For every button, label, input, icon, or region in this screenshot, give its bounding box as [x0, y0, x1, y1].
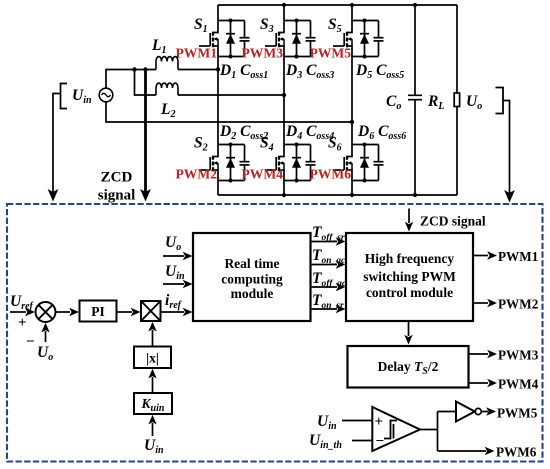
svg-text:PWM5: PWM5 [497, 406, 538, 421]
wire PWM5 out [481, 411, 488, 413]
cell S5: wire bottom [352, 56, 379, 58]
arrow Uref in [25, 308, 35, 316]
wire summer to PI [56, 311, 71, 313]
wire Uo feedback [503, 101, 510, 194]
arrow PWM2 [487, 299, 497, 307]
wire Toff_ac [311, 286, 338, 288]
wire leg2 lower [283, 181, 285, 196]
wire ZCD sense down [144, 70, 147, 194]
arrow PWM4 [487, 379, 497, 387]
multiplier [141, 301, 161, 321]
resistor RL [454, 93, 459, 107]
svg-text:PWM2: PWM2 [498, 297, 539, 312]
arrow Uo rt [183, 252, 193, 260]
diode D4 [292, 143, 301, 183]
wire bottom rail [218, 194, 457, 196]
wire leg3 upper [351, 5, 353, 21]
wire PWM2 out [473, 302, 488, 304]
block Kuin [134, 393, 172, 414]
svg-text:PWM3: PWM3 [498, 348, 539, 363]
wire Kuin to abs [152, 377, 154, 393]
wire Uref in [10, 311, 26, 313]
node A L2 tap [132, 67, 136, 71]
wire leg1 mid [217, 57, 219, 145]
diode D3 [292, 19, 301, 59]
svg-text:|x|: |x| [146, 351, 159, 366]
block High frequency switching PWM control module [346, 233, 473, 321]
node A ZCD tap [143, 67, 147, 71]
inverter U3 [456, 402, 475, 422]
wire L2 branch [135, 70, 157, 96]
wire Ton_ac [311, 264, 338, 266]
transistor S3 (MOSFET) [265, 21, 284, 57]
capacitor Coss5 [374, 21, 384, 57]
cell S1: wire bottom [218, 56, 245, 58]
wire Uo into summer [45, 331, 47, 342]
wire source top [106, 70, 156, 89]
wire Uin sense down [53, 94, 61, 194]
wire Uin_th comp [352, 440, 372, 442]
wire comparator out [420, 412, 456, 452]
wire leg1 upper [217, 5, 219, 21]
wire Uin rt [163, 283, 184, 285]
arrow iref [183, 308, 193, 316]
arrow ZCD inner [405, 222, 413, 232]
wire Ton_sr [311, 308, 338, 310]
wire L2 to leg2 [178, 94, 284, 96]
svg-text:High frequency: High frequency [365, 251, 455, 266]
wire abs to multiplier [152, 330, 154, 347]
cell S4: wire bottom [284, 180, 311, 182]
bracket Uin [61, 84, 68, 109]
summing junction [36, 302, 56, 322]
svg-text:ZCD signal: ZCD signal [420, 214, 486, 229]
AC source Uin [99, 88, 113, 102]
inductor L2 [156, 83, 178, 95]
diode D1 [226, 19, 235, 59]
node bottom rail leg3 [350, 193, 354, 197]
svg-text:signal: signal [98, 188, 136, 204]
svg-text:computing: computing [221, 272, 283, 287]
node ACbot leg3 [350, 120, 354, 124]
capacitor Coss2 [240, 145, 250, 181]
capacitor Coss3 [306, 21, 316, 57]
svg-text:−: − [376, 434, 385, 450]
wire leg2 mid [283, 57, 285, 145]
svg-text:module: module [231, 286, 274, 301]
arrow PWM3 [487, 350, 497, 358]
wire PWM4 out [469, 382, 489, 384]
wire PWM3 out [469, 353, 489, 355]
arrow Uo feedback [504, 190, 515, 203]
cell S2: wire top [218, 144, 245, 146]
cell S5: wire top [352, 20, 379, 22]
wire iref [161, 311, 185, 313]
cell S6: wire top [352, 144, 379, 146]
node bottom rail leg2 [282, 193, 286, 197]
svg-text:control module: control module [366, 285, 453, 300]
block Real time computing module [193, 233, 311, 321]
wire L1 to leg1 [178, 69, 218, 71]
node bottom rail Co [413, 193, 417, 197]
arrow abs to multiplier [148, 322, 156, 332]
wire leg3 lower [351, 181, 353, 196]
arrow Uin sense [48, 189, 59, 202]
wire Uo rt [163, 255, 184, 257]
block abs |x| [134, 347, 171, 369]
cell S6: wire bottom [352, 180, 379, 182]
svg-text:switching PWM: switching PWM [363, 269, 456, 284]
arrow into delay [404, 335, 412, 345]
svg-text:PWM6: PWM6 [496, 445, 537, 460]
svg-text:PWM4: PWM4 [498, 377, 539, 392]
wire PI to multiplier [117, 311, 133, 313]
svg-text:PWM4: PWM4 [241, 167, 283, 182]
transistor S1 (MOSFET) [199, 21, 218, 57]
wire top rail [218, 4, 457, 6]
arrow Uin to Kuin [148, 415, 156, 425]
wire right branch [456, 5, 458, 195]
bracket Uo [496, 88, 504, 114]
diode D6 [360, 143, 369, 183]
diode D5 [360, 19, 369, 59]
svg-text:PWM1: PWM1 [175, 46, 217, 61]
arrow Ton_sr [336, 305, 346, 313]
arrow Toff_sr [336, 237, 346, 245]
wire PWM1 out [473, 255, 488, 257]
arrow ZCD sense [140, 189, 151, 202]
svg-text:ZCD: ZCD [101, 170, 133, 186]
node top rail leg3 [350, 3, 354, 7]
node L2 leg2 [282, 93, 286, 97]
wire Toff_sr [311, 241, 338, 243]
transistor S4 (MOSFET) [265, 145, 284, 181]
arrow into multiplier [131, 308, 141, 316]
wire Uin comp [342, 420, 372, 422]
svg-text:−: − [26, 334, 35, 350]
transistor S6 (MOSFET) [333, 145, 352, 181]
cell S2: wire bottom [218, 180, 245, 182]
node top rail leg2 [282, 3, 286, 7]
arrow PWM5 [486, 407, 496, 415]
svg-text:+: + [375, 414, 384, 430]
transistor S2 (MOSFET) [199, 145, 218, 181]
wire leg3 mid [351, 57, 353, 145]
arrow Ton_ac [336, 260, 346, 268]
wire Uin to Kuin [152, 423, 154, 436]
wire PWM6 out [438, 450, 487, 452]
svg-text:PWM3: PWM3 [241, 46, 283, 61]
svg-text:Real time: Real time [224, 256, 279, 271]
transistor S5 (MOSFET) [333, 21, 352, 57]
capacitor Coss6 [374, 145, 384, 181]
arrow Uin rt [183, 280, 193, 288]
cell S3: wire top [284, 20, 311, 22]
cell S3: wire bottom [284, 56, 311, 58]
svg-text:PWM1: PWM1 [498, 249, 538, 264]
arrow PWM1 [487, 251, 497, 259]
capacitor Coss1 [240, 21, 250, 57]
arrow PWM6 [485, 447, 495, 455]
cell S1: wire top [218, 20, 245, 22]
wire leg1 lower [217, 181, 219, 196]
wire source bottom to leg3 [106, 102, 352, 122]
dashed control boundary [7, 204, 543, 462]
capacitor Coss4 [306, 145, 316, 181]
arrow Uo into summer [41, 323, 49, 333]
comparator U2 [372, 407, 420, 451]
arrow Toff_ac [336, 283, 346, 291]
arrow into PI [69, 308, 79, 316]
svg-text:PWM6: PWM6 [309, 167, 351, 182]
node top rail Co [413, 3, 417, 7]
cell S4: wire top [284, 144, 311, 146]
inductor L1 [156, 57, 178, 70]
wire leg2 upper [283, 5, 285, 21]
block PI [80, 301, 117, 322]
svg-text:PWM2: PWM2 [175, 167, 217, 182]
arrow Kuin to abs [148, 369, 156, 379]
node L1 leg1 [216, 67, 220, 71]
block Delay Ts/2 [348, 346, 469, 388]
svg-text:PI: PI [91, 304, 105, 319]
diode D2 [226, 143, 235, 183]
wire PWM box to delay [408, 321, 410, 336]
wire ZCD inner [408, 209, 410, 224]
svg-text:PWM5: PWM5 [309, 46, 351, 61]
svg-text:+: + [18, 315, 27, 331]
capacitor Co [408, 5, 422, 195]
